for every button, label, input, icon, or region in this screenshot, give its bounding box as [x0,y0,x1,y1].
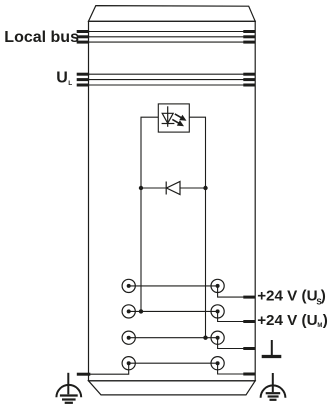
terminal bar +24V UM [243,320,255,323]
wire: UL lines [77,74,255,85]
label +24 V (UM) [257,312,328,329]
terminal 4 right [211,357,224,370]
wire: LED left branch [141,117,158,311]
wire: row4 left hook [77,363,129,374]
wire: row4 right hook [218,363,244,374]
ground symbol (signal ground, right of row 3) [262,340,282,357]
svg-text:L: L [68,80,72,87]
wire: terminal row 2 [129,310,218,312]
wire: local bus lines [77,32,255,43]
svg-text:): ) [323,312,328,329]
terminal bar +24V US [243,296,255,299]
UL connector bars right [243,74,255,85]
wire: terminal row 3 [129,337,218,339]
earth symbol left (functional earth) [56,373,81,403]
junction row3 / LED right branch [203,336,207,340]
wire: LED right branch [189,117,205,338]
local bus connector bars left [77,32,89,43]
terminal 1 left [122,279,135,292]
svg-text:U: U [56,70,68,87]
earth symbol right (functional earth) [261,373,286,400]
svg-text:+24 V (U: +24 V (U [257,312,317,329]
wire: terminal row 1 [129,285,218,287]
UL connector bars left [77,74,89,85]
wire: terminal row 4 [129,362,218,364]
terminal 1 right [211,279,224,292]
wire: row2 output hook [218,311,244,321]
terminal 4 left [122,357,135,370]
module body (3D outline) [89,6,256,395]
svg-text:+24 V (U: +24 V (U [257,288,317,305]
junction row2 / LED left branch [139,309,143,313]
terminal bar earth left [77,373,91,376]
local bus connector bars right [243,32,255,43]
terminal 3 right [211,331,224,344]
svg-text:): ) [321,288,326,305]
terminal 3 left [122,331,135,344]
junction right diode node [203,186,207,190]
junction left diode node [139,186,143,190]
label +24 V (US) [257,288,326,307]
svg-text:M: M [317,323,322,329]
diode D2 [166,182,180,195]
wire: row3 output hook [218,338,244,349]
LED indicator box [158,104,189,132]
LED D1 [162,106,188,129]
terminal bar ground [243,347,255,350]
terminal 2 right [211,305,224,318]
svg-text:Local bus: Local bus [4,29,79,46]
wire: diode rail [141,187,206,189]
terminal bar earth right [243,373,255,376]
terminal 2 left [122,305,135,318]
wire: row1 output hook [218,286,244,297]
